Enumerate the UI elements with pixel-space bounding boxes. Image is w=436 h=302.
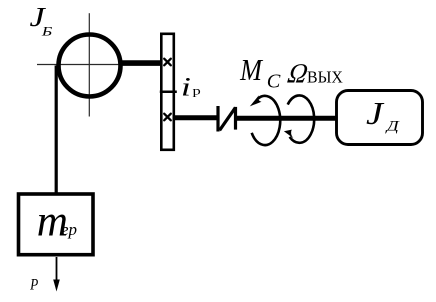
rotation arrow Omega head <box>284 130 294 139</box>
rope wire <box>55 66 58 196</box>
output cross x <box>164 114 171 121</box>
svg-text:J: J <box>366 96 384 132</box>
svg-text:С: С <box>267 70 281 92</box>
label i_p <box>181 72 201 101</box>
reducer divider <box>160 91 177 94</box>
label M_C <box>239 54 281 92</box>
label J_D <box>366 96 400 134</box>
coupling right bar <box>234 107 237 130</box>
coupling left bar <box>216 106 219 132</box>
svg-text:Д: Д <box>385 117 400 134</box>
motor box J_D <box>337 91 423 145</box>
svg-text:Б: Б <box>41 25 52 39</box>
svg-text:р: р <box>192 85 200 98</box>
weight force line <box>56 257 58 281</box>
weight force arrowhead <box>53 280 60 292</box>
load mass box <box>19 194 94 255</box>
svg-text:ВЫХ: ВЫХ <box>307 67 343 87</box>
gear reducer box <box>161 34 174 150</box>
svg-text:гр: гр <box>62 220 77 239</box>
label J_B <box>30 1 53 39</box>
svg-text:M: M <box>239 54 263 87</box>
label Omega_vyh <box>285 58 343 89</box>
input cross x <box>164 59 171 66</box>
shaft reducer to coupling <box>174 115 217 120</box>
svg-text:i: i <box>181 72 191 101</box>
rotation arrow M_C head <box>250 95 262 106</box>
rotation arrow Omega arc <box>288 95 314 142</box>
label m_gr <box>37 197 77 246</box>
drum centerline horizontal <box>37 64 128 66</box>
rotation arrow M_C arc <box>252 96 281 145</box>
shaft drum to reducer <box>119 60 161 66</box>
coupling diagonal <box>220 108 236 131</box>
drum centerline vertical <box>88 13 90 116</box>
shaft coupling to motor <box>237 116 338 121</box>
svg-text:P: P <box>29 277 38 294</box>
drum J_B circle <box>59 35 121 97</box>
